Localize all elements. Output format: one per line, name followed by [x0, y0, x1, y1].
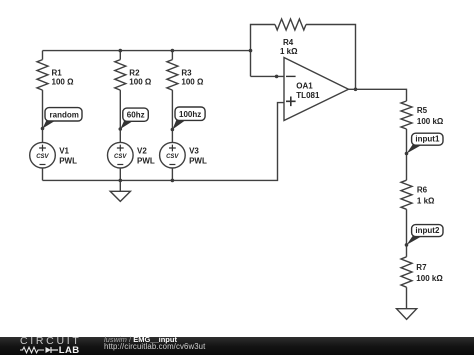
wire V1 to bottom rail — [42, 168, 44, 180]
svg-text:R1: R1 — [52, 69, 63, 78]
svg-text:100 kΩ: 100 kΩ — [416, 274, 443, 283]
node junction bottom rail / ground — [119, 179, 123, 183]
node random label — [41, 108, 82, 131]
node 60hz label — [119, 108, 149, 131]
svg-text:100hz: 100hz — [179, 110, 201, 119]
wire top bus — [43, 50, 251, 52]
wire V3 to bottom rail — [171, 168, 173, 180]
node junction at op-amp inverting pin — [275, 75, 279, 79]
voltage source V3 (PWL/CSV) — [160, 142, 207, 168]
svg-text:R3: R3 — [181, 69, 192, 78]
svg-text:100 kΩ: 100 kΩ — [417, 117, 444, 126]
svg-text:100 Ω: 100 Ω — [52, 77, 75, 86]
svg-text:1 kΩ: 1 kΩ — [280, 47, 298, 56]
wire feedback left vertical — [251, 25, 276, 77]
svg-text:PWL: PWL — [137, 156, 155, 165]
node junction top bus / feedback — [249, 49, 253, 53]
svg-text:R7: R7 — [416, 263, 427, 272]
resistor R2 — [119, 51, 121, 60]
wire inverting input net — [251, 75, 296, 77]
svg-text:TL081: TL081 — [296, 91, 320, 100]
svg-text:R6: R6 — [417, 185, 428, 194]
svg-text:R4: R4 — [283, 38, 294, 47]
svg-text:input1: input1 — [415, 135, 440, 144]
ground symbol (output divider) — [397, 309, 417, 320]
voltage source V2 (PWL/CSV) — [108, 142, 155, 168]
footer title text — [104, 336, 205, 351]
svg-text:100 Ω: 100 Ω — [129, 77, 152, 86]
svg-text:LAB: LAB — [59, 346, 80, 354]
svg-text:R5: R5 — [417, 106, 428, 115]
CircuitLab logo — [20, 337, 81, 345]
svg-text:input2: input2 — [415, 226, 440, 235]
svg-text:CSV: CSV — [36, 154, 49, 160]
node input2 label — [405, 225, 443, 247]
svg-text:CSV: CSV — [166, 154, 179, 160]
footer bar — [0, 337, 474, 355]
wire output to R5 — [349, 89, 407, 101]
wire V2 to bottom rail — [119, 168, 121, 180]
node junction bottom rail / V3 — [171, 179, 175, 183]
svg-text:PWL: PWL — [189, 156, 207, 165]
node junction op-amp output — [354, 88, 358, 92]
svg-text:V2: V2 — [137, 147, 147, 156]
svg-text:60hz: 60hz — [127, 111, 145, 120]
node 100hz label — [171, 107, 206, 131]
node input1 label — [405, 133, 443, 155]
resistor R1 — [42, 51, 44, 60]
svg-text:100 Ω: 100 Ω — [181, 77, 204, 86]
resistor R7 — [401, 257, 412, 287]
svg-text:1 kΩ: 1 kΩ — [417, 196, 435, 205]
svg-text:V1: V1 — [59, 147, 69, 156]
svg-text:OA1: OA1 — [296, 82, 313, 91]
svg-text:random: random — [50, 110, 79, 119]
resistor R4 — [275, 19, 306, 30]
node junction top bus / R3 — [171, 49, 175, 53]
ground symbol (bottom rail) — [119, 180, 121, 191]
voltage source V1 (PWL/CSV) — [30, 142, 77, 168]
op-amp OA1 TL081 — [284, 58, 349, 121]
resistor R5 — [401, 101, 412, 129]
svg-text:CSV: CSV — [114, 154, 127, 160]
svg-text:V3: V3 — [189, 147, 199, 156]
svg-text:PWL: PWL — [59, 156, 77, 165]
wire bottom rail — [43, 103, 285, 181]
svg-text:R2: R2 — [129, 69, 140, 78]
resistor R6 — [401, 180, 412, 209]
wire feedback right vertical to output — [306, 25, 356, 90]
node junction top bus / R2 — [119, 49, 123, 53]
resistor R3 — [171, 51, 173, 60]
